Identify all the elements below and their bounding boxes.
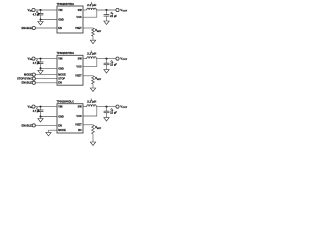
resistor RSET2 [92,76,95,84]
svg-text:VIN: VIN [58,57,62,60]
svg-text:4.7 µF: 4.7 µF [33,14,41,17]
terminal STOP/SYNC2 [32,77,35,80]
inductor L1 2.2uH [87,8,97,10]
terminal ENABLE2 [32,81,35,84]
svg-text:MODE: MODE [58,129,66,132]
IC U3 body (TPS62840DLC) [57,104,83,133]
svg-text:VOS: VOS [76,16,82,19]
junction CI2/GND2 [40,67,42,69]
wire VIN2 to U2.VIN [35,58,57,60]
ground output CO1 [104,21,109,25]
svg-text:VIN: VIN [58,105,62,108]
ground RSET1 [90,40,95,44]
terminal VIN2 [32,57,35,60]
terminal VOUT1 [116,8,119,11]
terminal ENABLE3 [32,124,35,127]
wire CI3 top lead [40,107,42,110]
wire L1 to VOUT1 [96,9,116,11]
wire RSET1 bottom lead [92,36,94,40]
svg-text:VIN: VIN [58,9,62,12]
ground MODE3 [46,132,51,136]
wire CI2 top lead [40,59,42,62]
wire CO1 bottom lead [106,16,108,21]
wire CI3 bottom lead [40,112,42,117]
capacitor CI3 4.7uF [38,109,44,111]
svg-text:TPS62840DLC: TPS62840DLC [57,100,75,104]
terminal VIN3 [32,105,35,108]
resistor RSET1 [92,28,95,36]
IC U1 body (TPS62840YBG) [57,6,83,33]
wire U3.VSET to RSET3 [83,124,93,126]
svg-text:22 µF: 22 µF [110,15,117,18]
wire ENABLE1 to U1 [35,27,57,29]
junction VOUT2/CO2 [106,58,108,60]
svg-text:GND: GND [58,67,64,70]
wire U3.SW to L3 [83,106,87,108]
svg-text:ENABLE: ENABLE [22,81,33,85]
svg-text:NC: NC [78,129,82,132]
svg-text:2.2 µH: 2.2 µH [87,101,96,104]
svg-text:VOS: VOS [76,65,82,68]
svg-text:VSET: VSET [75,75,82,78]
svg-text:VOS: VOS [76,115,82,118]
inductor L2 2.2uH [87,57,97,59]
capacitor CO2 22uF [104,62,110,64]
svg-text:ENABLE: ENABLE [22,26,33,30]
terminal VOUT2 [116,57,119,60]
wire GND3 U3.GND to CI3 [41,116,58,118]
wire ENABLE2 to U2 [35,82,57,84]
wire STOP/SYNC2 to U2 [35,78,57,80]
wire U1.VOS sense connection [83,10,97,17]
svg-text:2.2 µH: 2.2 µH [87,53,96,56]
ground output CO3 [104,118,109,122]
terminal VOUT3 [116,105,119,108]
wire GND1 U1.GND to CI1 [41,19,58,21]
wire CO3 top lead [106,107,108,112]
svg-text:STOP: STOP [58,77,65,80]
ground input GND2 [38,70,43,74]
svg-text:SW: SW [78,9,83,12]
ground input GND1 [38,22,43,26]
svg-text:EN: EN [58,124,62,127]
wire VIN3 to U3.VIN [35,106,57,108]
svg-text:22 µF: 22 µF [110,64,117,67]
wire U1.VSET to RSET1 [83,27,93,29]
wire U3.MODE to ground [49,129,58,131]
wire U2.VOS sense connection [83,59,97,67]
svg-text:GND: GND [58,115,64,118]
svg-text:VSET: VSET [75,124,82,127]
ground RSET3 [90,142,95,146]
svg-text:TPS62840YBG: TPS62840YBG [57,2,75,6]
svg-text:SW: SW [78,57,83,60]
capacitor CO3 22uF [104,110,110,112]
capacitor CO1 22uF [104,14,110,16]
ground RSET2 [90,88,95,92]
wire L3 to VOUT3 [96,106,116,108]
wire gnd stub 2 [40,68,42,70]
capacitor CI1 4.7uF [38,12,44,14]
inductor L3 2.2uH [87,105,97,107]
wire gnd stub 1 [40,20,42,22]
junction VOUT1/CO1 [106,9,108,11]
wire L2 to VOUT2 [96,58,116,60]
ground input GND3 [38,119,43,123]
junction VOUT3/CO3 [106,106,108,108]
wire ENABLE3 to U3 [35,124,57,126]
wire CI1 bottom lead [40,15,42,20]
wire MODE2 to U2 [35,74,57,76]
wire CO1 top lead [106,10,108,15]
resistor RSET3 [92,125,95,134]
wire RSET2 bottom lead [92,84,94,88]
ground output CO2 [104,70,109,74]
junction VIN1/CI1 [40,9,42,11]
svg-text:4.7 µF: 4.7 µF [33,62,41,65]
junction CI3/GND3 [40,116,42,118]
terminal ENABLE1 [32,26,35,29]
capacitor CI2 4.7uF [38,61,44,63]
wire CI1 top lead [40,10,42,13]
svg-text:ENABLE: ENABLE [22,123,33,127]
svg-text:GND: GND [58,18,64,21]
wire GND2 U2.GND to CI2 [41,67,58,69]
wire U2.SW to L2 [83,58,87,60]
svg-text:MODE: MODE [58,73,66,76]
svg-text:22 µF: 22 µF [110,112,117,115]
svg-text:EN: EN [58,27,62,30]
svg-text:VSET: VSET [75,27,82,30]
junction VIN3/CI3 [40,106,42,108]
svg-text:2.2 µH: 2.2 µH [87,4,96,7]
junction VIN2/CI2 [40,58,42,60]
terminal MODE2 [32,73,35,76]
junction CI1/GND1 [40,19,42,21]
wire U2.VSET to RSET2 [83,75,93,77]
wire RSET3 bottom lead [92,134,94,142]
wire U3.VOS sense connection [83,107,97,116]
wire U1.SW to L1 [83,9,87,11]
wire CI2 bottom lead [40,64,42,69]
svg-text:TPS62840YBG: TPS62840YBG [57,51,75,55]
wire MODE gnd stub 3 [48,130,50,132]
wire VIN1 to U1.VIN [35,9,57,11]
wire CO3 bottom lead [106,113,108,118]
wire CO2 top lead [106,59,108,64]
svg-text:SW: SW [78,105,83,108]
wire gnd stub 3 [40,117,42,119]
wire CO2 bottom lead [106,65,108,70]
svg-text:4.7 µF: 4.7 µF [33,110,41,113]
IC U2 body (TPS62840YBG) [57,55,83,85]
terminal VIN1 [32,8,35,11]
svg-text:EN: EN [58,82,62,85]
